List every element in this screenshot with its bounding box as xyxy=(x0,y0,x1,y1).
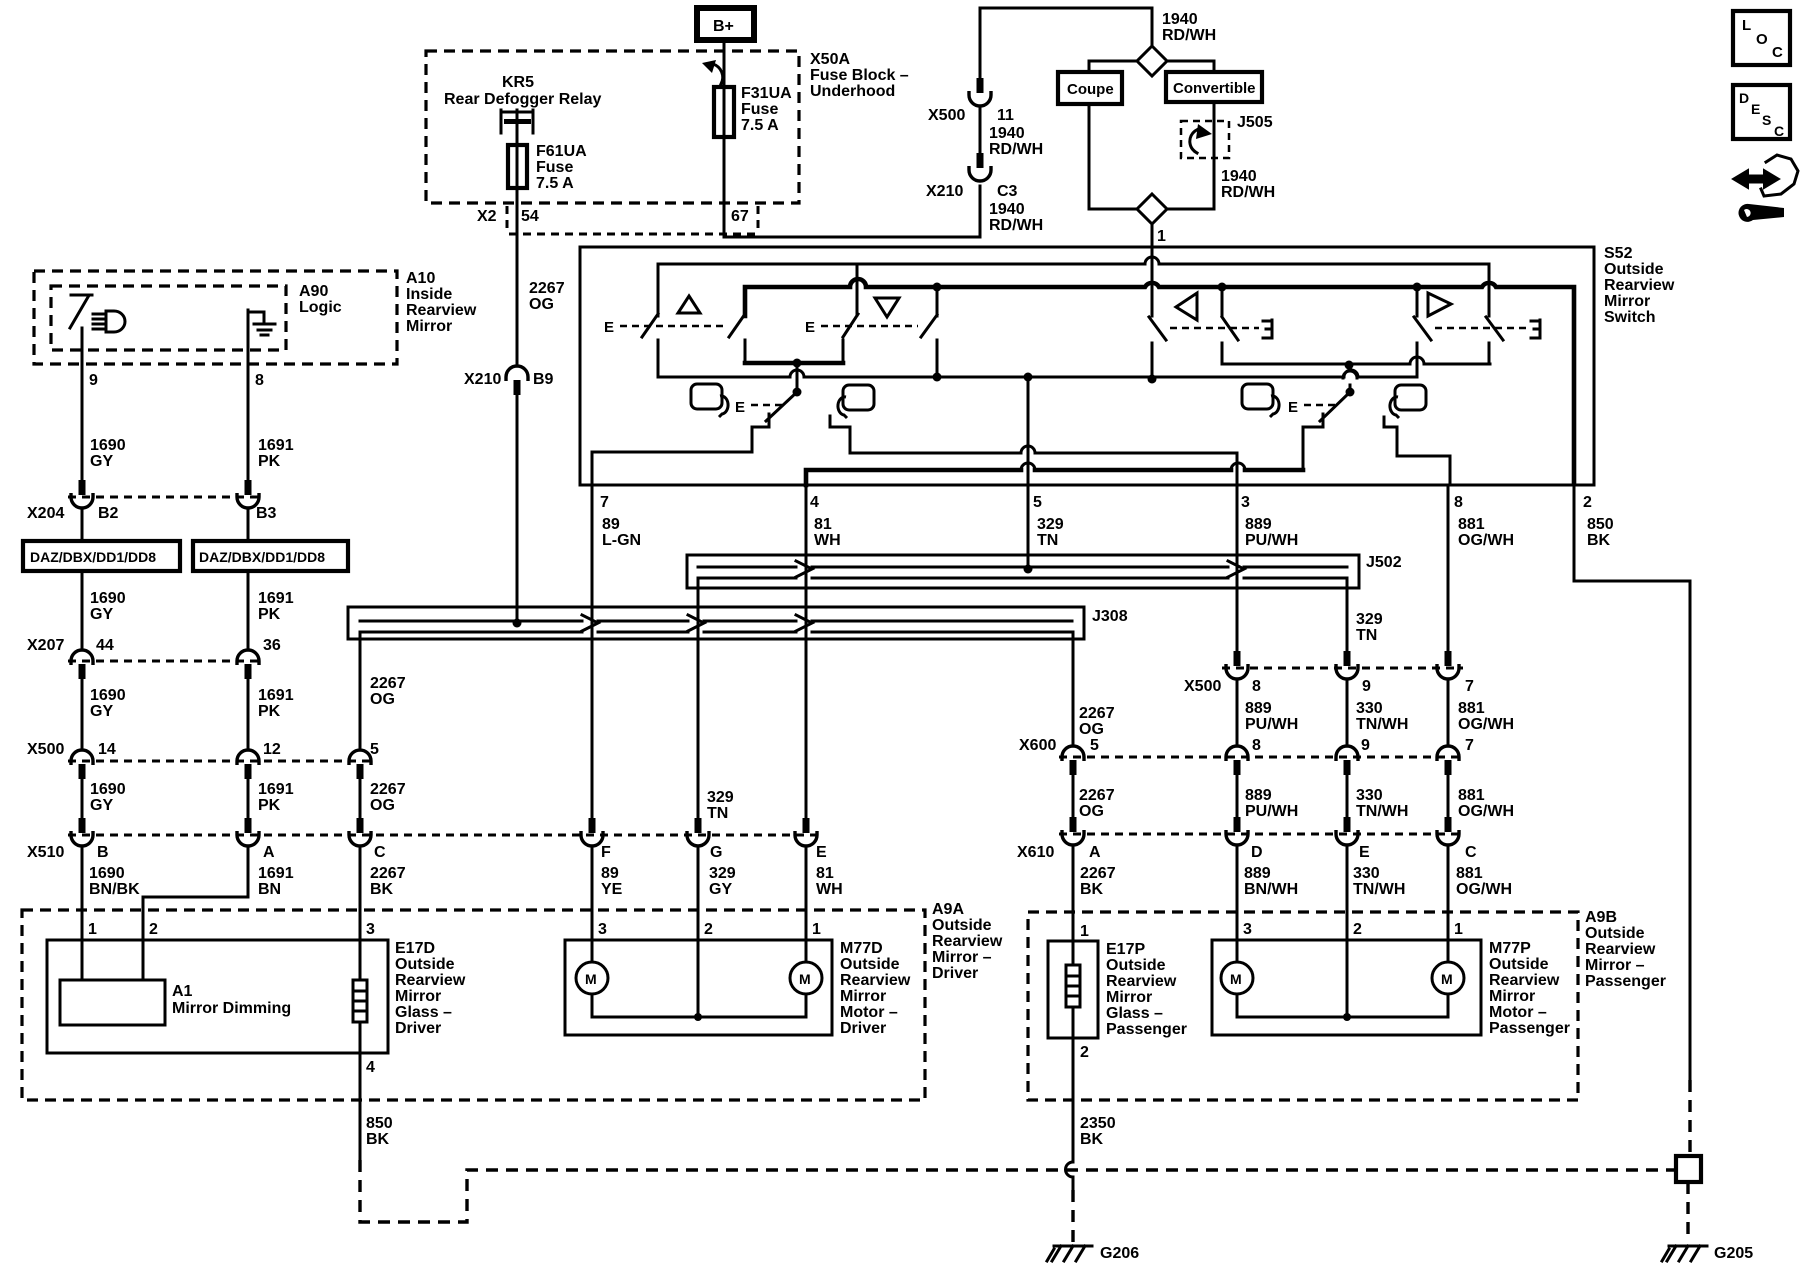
wire 2267 OG J308 to X600 pin 5 xyxy=(1072,632,1075,746)
S52 right-arrow triangle xyxy=(1428,293,1451,316)
svg-text:1690: 1690 xyxy=(90,590,126,607)
svg-text:E: E xyxy=(805,319,815,336)
svg-text:M: M xyxy=(1230,971,1242,987)
connector X500 pin 8 xyxy=(1234,651,1241,666)
S52 right-switch blade 7 xyxy=(1416,287,1419,316)
svg-text:1: 1 xyxy=(1080,923,1089,940)
svg-text:M: M xyxy=(799,971,811,987)
wire 881 OG/WH X600 to X610 xyxy=(1447,775,1450,818)
svg-text:S52: S52 xyxy=(1604,245,1633,262)
svg-text:M: M xyxy=(585,971,597,987)
LOC icon box xyxy=(1733,11,1790,65)
mirror glass E17P box xyxy=(1048,941,1098,1038)
wire 330 TN/WH X500 to X600 xyxy=(1346,679,1349,746)
svg-text:X210: X210 xyxy=(926,183,963,200)
svg-text:TN/WH: TN/WH xyxy=(1356,803,1408,820)
connector X610 pin E xyxy=(1344,817,1351,832)
svg-text:881: 881 xyxy=(1458,700,1485,717)
module A9B Outside Rearview Mirror Passenger dashed box xyxy=(1028,912,1578,1100)
svg-text:850: 850 xyxy=(366,1115,393,1132)
svg-text:PK: PK xyxy=(258,797,281,814)
svg-text:E: E xyxy=(816,844,827,861)
junction diamond top xyxy=(1137,46,1167,76)
S52 passenger output rail xyxy=(1222,357,1490,364)
svg-text:OG/WH: OG/WH xyxy=(1458,532,1514,549)
svg-text:Inside: Inside xyxy=(406,286,452,303)
svg-text:B2: B2 xyxy=(98,505,119,522)
svg-text:2: 2 xyxy=(1080,1044,1089,1061)
svg-text:A: A xyxy=(263,844,275,861)
wire Convertible down xyxy=(1167,102,1214,209)
battery feed B+ xyxy=(697,8,754,40)
module A9A Outside Rearview Mirror Driver dashed box xyxy=(22,910,925,1100)
svg-text:Outside: Outside xyxy=(1489,956,1549,973)
svg-text:Rear Defogger Relay: Rear Defogger Relay xyxy=(444,91,601,108)
svg-text:889: 889 xyxy=(1244,865,1271,882)
svg-text:X610: X610 xyxy=(1017,844,1054,861)
connector X600 pin 9 xyxy=(1336,746,1358,761)
svg-text:329: 329 xyxy=(707,789,734,806)
wire E17D pin 4 xyxy=(359,1022,362,1160)
wire M77P pin 2 xyxy=(1346,846,1349,940)
connector X207 pin 36 xyxy=(237,650,259,665)
svg-text:Logic: Logic xyxy=(299,299,342,316)
svg-text:BN/BK: BN/BK xyxy=(89,881,140,898)
connector X510 row xyxy=(68,834,820,837)
wire 1690 GY to DAZ xyxy=(81,508,84,541)
svg-text:1691: 1691 xyxy=(258,865,294,882)
wire 2267 OG below X500 pin 5 xyxy=(359,779,362,818)
wires into A1 xyxy=(82,940,143,980)
svg-text:44: 44 xyxy=(96,637,114,654)
svg-text:1940: 1940 xyxy=(989,125,1025,142)
svg-text:C: C xyxy=(1772,44,1783,61)
S52 passenger select contact to pin 4 xyxy=(1303,414,1323,470)
E17P heater element xyxy=(1072,941,1075,965)
svg-text:DAZ/DBX/DD1/DD8: DAZ/DBX/DD1/DD8 xyxy=(199,549,325,565)
svg-text:A1: A1 xyxy=(172,983,193,1000)
wire 2267 OG J308 to X500 pin 5 xyxy=(359,632,362,750)
wire 881 OG/WH S52 pin 8 down xyxy=(1447,485,1450,651)
svg-text:54: 54 xyxy=(521,208,539,225)
M77P internal wiring xyxy=(1237,940,1448,1017)
svg-text:A9B: A9B xyxy=(1585,909,1617,926)
svg-text:PU/WH: PU/WH xyxy=(1245,716,1298,733)
svg-text:1690: 1690 xyxy=(90,687,126,704)
svg-text:881: 881 xyxy=(1456,865,1483,882)
svg-text:C: C xyxy=(1774,123,1784,139)
svg-text:Mirror: Mirror xyxy=(1489,988,1535,1005)
svg-text:8: 8 xyxy=(1454,494,1463,511)
connector X510 pin B xyxy=(79,818,86,833)
ground splice square near G205 xyxy=(1676,1156,1701,1182)
svg-text:PU/WH: PU/WH xyxy=(1245,803,1298,820)
svg-text:1: 1 xyxy=(88,921,97,938)
svg-text:850: 850 xyxy=(1587,516,1614,533)
svg-text:14: 14 xyxy=(98,741,116,758)
svg-text:Driver: Driver xyxy=(840,1020,886,1037)
svg-text:OG: OG xyxy=(529,296,554,313)
connector X210 pin C3 xyxy=(977,153,984,168)
wire fuse F61UA to X210 B9 (2267 OG) xyxy=(516,188,519,366)
M77P motor right xyxy=(1447,940,1450,962)
svg-text:Fuse: Fuse xyxy=(536,159,573,176)
wire M77P pin 3 xyxy=(1236,846,1239,940)
svg-text:J308: J308 xyxy=(1092,608,1128,625)
wire 1690 GY below DAZ xyxy=(81,571,84,650)
svg-text:RD/WH: RD/WH xyxy=(989,217,1043,234)
svg-text:M77D: M77D xyxy=(840,940,883,957)
connector X500 pin 11 xyxy=(979,186,982,237)
svg-text:PK: PK xyxy=(258,453,281,470)
svg-text:A10: A10 xyxy=(406,270,435,287)
svg-text:Rearview: Rearview xyxy=(395,972,466,989)
svg-text:Outside: Outside xyxy=(1585,925,1645,942)
svg-text:12: 12 xyxy=(263,741,281,758)
svg-text:1691: 1691 xyxy=(258,590,294,607)
S52 driver select contact to pin 3 xyxy=(830,416,1237,485)
svg-text:81: 81 xyxy=(814,516,832,533)
svg-text:M: M xyxy=(1441,971,1453,987)
svg-text:OG: OG xyxy=(370,691,395,708)
svg-text:YE: YE xyxy=(601,881,623,898)
svg-text:OG/WH: OG/WH xyxy=(1456,881,1512,898)
svg-text:1691: 1691 xyxy=(258,781,294,798)
S52 driver select blade xyxy=(766,392,797,421)
connector J502 xyxy=(687,555,1359,588)
E17D heater element xyxy=(359,940,362,980)
svg-text:9: 9 xyxy=(89,372,98,389)
svg-text:2267: 2267 xyxy=(529,280,565,297)
svg-text:F31UA: F31UA xyxy=(741,85,792,102)
svg-text:D: D xyxy=(1251,844,1263,861)
svg-text:O: O xyxy=(1756,31,1768,48)
wire 1940 RD/WH to diamond xyxy=(1151,8,1154,46)
svg-text:TN/WH: TN/WH xyxy=(1356,716,1408,733)
svg-text:X50A: X50A xyxy=(810,51,850,68)
svg-text:8: 8 xyxy=(1252,737,1261,754)
svg-text:889: 889 xyxy=(1245,516,1272,533)
S52 left-switch blade 6 xyxy=(1221,287,1224,316)
S52 rail A (upper) xyxy=(658,257,1489,316)
svg-text:X207: X207 xyxy=(27,637,64,654)
connector X500 left row xyxy=(68,760,374,763)
svg-text:WH: WH xyxy=(814,532,841,549)
svg-text:DAZ/DBX/DD1/DD8: DAZ/DBX/DD1/DD8 xyxy=(30,549,156,565)
svg-text:X204: X204 xyxy=(27,505,64,522)
svg-text:BK: BK xyxy=(1080,1131,1104,1148)
wire A90 pin 8 xyxy=(247,310,250,480)
svg-text:Outside: Outside xyxy=(1604,261,1664,278)
connector X510 pin C xyxy=(357,818,364,833)
svg-text:TN: TN xyxy=(1037,532,1058,549)
svg-text:1940: 1940 xyxy=(1221,168,1257,185)
svg-text:Mirror: Mirror xyxy=(395,988,441,1005)
svg-text:OG: OG xyxy=(1079,721,1104,738)
svg-text:B9: B9 xyxy=(533,371,554,388)
svg-text:3: 3 xyxy=(366,921,375,938)
S52 passenger select tap xyxy=(1349,365,1352,392)
junction diamond bottom xyxy=(1137,194,1167,224)
connector X610 pin A xyxy=(1070,817,1077,832)
svg-text:C: C xyxy=(1465,844,1477,861)
option box DAZ/DBX/DD1/DD8 right xyxy=(193,541,348,571)
svg-text:2: 2 xyxy=(1583,494,1592,511)
wire X510 C to E17D pin 3 xyxy=(359,846,362,940)
connector X610 pin D xyxy=(1234,817,1241,832)
svg-text:Driver: Driver xyxy=(932,965,978,982)
svg-text:E: E xyxy=(604,319,614,336)
connector X500 pin 14 xyxy=(71,750,93,765)
svg-text:11: 11 xyxy=(997,107,1014,124)
svg-text:E: E xyxy=(1359,844,1370,861)
svg-text:X500: X500 xyxy=(928,107,965,124)
svg-text:Driver: Driver xyxy=(395,1020,441,1037)
svg-text:5: 5 xyxy=(1033,494,1042,511)
S52 down-switch triangle xyxy=(875,298,899,317)
svg-text:A: A xyxy=(1089,844,1101,861)
svg-text:X2: X2 xyxy=(477,208,497,225)
wire 1690 GY to X500 xyxy=(81,679,84,750)
svg-text:2267: 2267 xyxy=(370,865,406,882)
svg-text:4: 4 xyxy=(810,494,819,511)
mirror motor M77D box xyxy=(565,940,832,1035)
svg-text:BK: BK xyxy=(366,1131,390,1148)
S52 down-switch blade 3 xyxy=(843,314,858,337)
svg-text:Mirror –: Mirror – xyxy=(1585,957,1645,974)
connector X510 pin E xyxy=(803,818,810,833)
connector X207 row xyxy=(68,660,262,663)
svg-text:Passenger: Passenger xyxy=(1106,1021,1187,1038)
svg-text:329: 329 xyxy=(1037,516,1064,533)
wire 2267 OG from X210 B9 to J308 xyxy=(516,395,519,623)
wire X610 A to E17P pin 1 xyxy=(1072,846,1075,941)
svg-text:Rearview: Rearview xyxy=(1585,941,1656,958)
svg-text:B: B xyxy=(97,844,109,861)
connector X510 pin A xyxy=(245,818,252,833)
fuse block arrow icon xyxy=(713,64,723,84)
mirror glass E17D box xyxy=(47,940,388,1053)
J505 hook symbol xyxy=(1190,128,1200,153)
svg-text:BK: BK xyxy=(370,881,394,898)
connector X500 pin 5 xyxy=(349,750,371,765)
connector X510 pin G xyxy=(695,818,702,833)
module A10 Inside Rearview Mirror dashed box xyxy=(34,271,397,364)
svg-text:7.5 A: 7.5 A xyxy=(536,175,574,192)
svg-text:330: 330 xyxy=(1356,787,1383,804)
S52 common power rail xyxy=(658,370,1417,377)
svg-text:Rearview: Rearview xyxy=(840,972,911,989)
wire 89 L-GN S52 pin 7 down xyxy=(591,485,594,818)
svg-text:GY: GY xyxy=(90,453,113,470)
svg-text:Switch: Switch xyxy=(1604,309,1656,326)
A90 switch symbol xyxy=(70,295,92,328)
svg-text:B+: B+ xyxy=(713,18,734,35)
svg-text:1690: 1690 xyxy=(90,781,126,798)
svg-text:F61UA: F61UA xyxy=(536,143,587,160)
svg-text:Outside: Outside xyxy=(395,956,455,973)
svg-text:BN: BN xyxy=(258,881,281,898)
svg-text:RD/WH: RD/WH xyxy=(1221,184,1275,201)
svg-text:PU/WH: PU/WH xyxy=(1245,532,1298,549)
svg-text:9: 9 xyxy=(1361,737,1370,754)
svg-text:TN: TN xyxy=(1356,627,1377,644)
connector X610 pin C xyxy=(1445,817,1452,832)
svg-text:67: 67 xyxy=(731,208,749,225)
svg-text:3: 3 xyxy=(1241,494,1250,511)
svg-text:Motor –: Motor – xyxy=(840,1004,898,1021)
svg-text:PK: PK xyxy=(258,703,281,720)
svg-text:2350: 2350 xyxy=(1080,1115,1116,1132)
connector X207 pin 44 xyxy=(71,650,93,665)
svg-text:C: C xyxy=(374,844,386,861)
connector X500 right row xyxy=(1222,667,1463,670)
wire 889 PU/WH X500 to X600 xyxy=(1236,679,1239,746)
wire 329 TN from J502 left end down xyxy=(697,578,700,818)
svg-text:Mirror –: Mirror – xyxy=(932,949,992,966)
svg-text:1: 1 xyxy=(812,921,821,938)
connector J308 xyxy=(348,607,1084,639)
S52 output line to pin 4 (thick) xyxy=(806,470,1303,485)
svg-text:E: E xyxy=(735,399,745,416)
svg-text:Mirror: Mirror xyxy=(1106,989,1152,1006)
connector X204 row xyxy=(68,496,262,499)
svg-text:GY: GY xyxy=(90,703,113,720)
DESC icon box xyxy=(1733,85,1790,139)
M77D motor left xyxy=(591,940,594,962)
svg-text:Outside: Outside xyxy=(840,956,900,973)
svg-text:Coupe: Coupe xyxy=(1067,81,1114,98)
svg-text:D: D xyxy=(1739,90,1749,106)
svg-text:1691: 1691 xyxy=(258,687,294,704)
svg-text:2267: 2267 xyxy=(1079,705,1115,722)
wire 81 WH S52 pin 4 down xyxy=(805,485,808,818)
svg-text:TN: TN xyxy=(707,805,728,822)
wire B+ to fuse F31UA xyxy=(723,40,726,87)
connector X204 pin B3 xyxy=(245,480,252,495)
svg-text:X500: X500 xyxy=(1184,678,1221,695)
svg-text:81: 81 xyxy=(816,865,834,882)
svg-text:329: 329 xyxy=(709,865,736,882)
connector X600 pin 7 xyxy=(1437,746,1459,761)
wire M77D pin 2 xyxy=(697,846,700,940)
svg-text:889: 889 xyxy=(1245,787,1272,804)
svg-text:5: 5 xyxy=(1090,737,1099,754)
ground G206 xyxy=(1047,1246,1092,1261)
svg-text:X510: X510 xyxy=(27,844,64,861)
svg-text:Glass –: Glass – xyxy=(395,1004,452,1021)
A90 headlight icon xyxy=(93,311,125,332)
svg-text:G205: G205 xyxy=(1714,1245,1753,1262)
svg-text:Outside: Outside xyxy=(932,917,992,934)
svg-text:GY: GY xyxy=(709,881,732,898)
svg-text:2267: 2267 xyxy=(370,675,406,692)
M77P motor left xyxy=(1236,940,1239,962)
svg-text:OG/WH: OG/WH xyxy=(1458,803,1514,820)
svg-text:89: 89 xyxy=(602,516,620,533)
svg-text:Fuse Block –: Fuse Block – xyxy=(810,67,909,84)
svg-text:7.5 A: 7.5 A xyxy=(741,117,779,134)
mirror motor M77P box xyxy=(1212,940,1481,1035)
svg-text:L-GN: L-GN xyxy=(602,532,641,549)
wire pin 1 into S52 xyxy=(1151,224,1154,256)
svg-text:2: 2 xyxy=(149,921,158,938)
wire Coupe down xyxy=(1089,104,1137,209)
svg-text:E17P: E17P xyxy=(1106,941,1145,958)
connector X500 pin 9 xyxy=(1344,651,1351,666)
S52 up-switch blade 1 xyxy=(642,314,658,337)
svg-text:2267: 2267 xyxy=(370,781,406,798)
svg-text:X210: X210 xyxy=(464,371,501,388)
fuse F31UA 7.5A xyxy=(723,87,726,137)
wire X510 B to E17D pin 1 xyxy=(81,846,84,940)
svg-text:PK: PK xyxy=(258,606,281,623)
svg-text:89: 89 xyxy=(601,865,619,882)
splice J505 dashed box xyxy=(1181,121,1229,158)
A90 ground symbol xyxy=(248,312,275,335)
svg-text:Rearview: Rearview xyxy=(1489,972,1560,989)
wire M77D pin 3 xyxy=(591,846,594,940)
wire 1691 PK to X500 xyxy=(247,679,250,750)
svg-text:OG: OG xyxy=(370,797,395,814)
svg-text:881: 881 xyxy=(1458,516,1485,533)
svg-text:E: E xyxy=(1751,101,1760,117)
svg-text:E: E xyxy=(1288,399,1298,416)
svg-text:S: S xyxy=(1762,112,1771,128)
option box Coupe xyxy=(1058,72,1122,104)
wire 881 OG/WH X500 to X600 xyxy=(1447,679,1450,746)
connector X600 row xyxy=(1059,756,1463,759)
svg-text:J502: J502 xyxy=(1366,554,1402,571)
A1 Mirror Dimming box xyxy=(60,980,165,1025)
wire to Convertible xyxy=(1167,61,1214,72)
svg-text:KR5: KR5 xyxy=(502,74,534,91)
S52 driver mirror icon right xyxy=(838,385,874,418)
svg-text:7: 7 xyxy=(1465,737,1474,754)
svg-text:BK: BK xyxy=(1080,881,1104,898)
connector X210 pin B9 xyxy=(506,366,528,381)
wire 2350 BK hop over ground bus xyxy=(1066,1162,1073,1190)
wire 329 TN from J502 right end down xyxy=(1346,578,1349,651)
svg-text:Mirror Dimming: Mirror Dimming xyxy=(172,1000,291,1017)
svg-text:RD/WH: RD/WH xyxy=(989,141,1043,158)
S52 left-switch blade 5 xyxy=(1151,224,1154,316)
wire 330 TN/WH X600 to X610 xyxy=(1346,775,1349,818)
svg-text:1690: 1690 xyxy=(90,437,126,454)
M77D motor right xyxy=(805,940,808,962)
wire 1691 PK below DAZ xyxy=(247,571,250,650)
svg-text:8: 8 xyxy=(255,372,264,389)
connector X600 pin 8 xyxy=(1226,746,1248,761)
svg-text:889: 889 xyxy=(1245,700,1272,717)
svg-text:Rearview: Rearview xyxy=(1106,973,1177,990)
svg-text:1691: 1691 xyxy=(258,437,294,454)
svg-text:G206: G206 xyxy=(1100,1245,1139,1262)
svg-text:9: 9 xyxy=(1362,678,1371,695)
svg-text:Mirror: Mirror xyxy=(1604,293,1650,310)
svg-text:A90: A90 xyxy=(299,283,328,300)
wire X510 A to E17D pin 2 xyxy=(143,846,248,940)
S52 right-switch mech link xyxy=(1435,327,1527,330)
fuse block X50A dashed box xyxy=(426,51,799,203)
wire 329 TN from S52 pin 5 to J502 xyxy=(1027,485,1030,569)
S52 driver select contact to pin 7 xyxy=(592,414,769,485)
ground G205 xyxy=(1662,1246,1707,1261)
S52 left-switch mech link xyxy=(1170,327,1259,330)
connector X204 pin B2 xyxy=(79,480,86,495)
S52 left-arrow triangle xyxy=(1176,293,1197,320)
svg-text:36: 36 xyxy=(263,637,281,654)
